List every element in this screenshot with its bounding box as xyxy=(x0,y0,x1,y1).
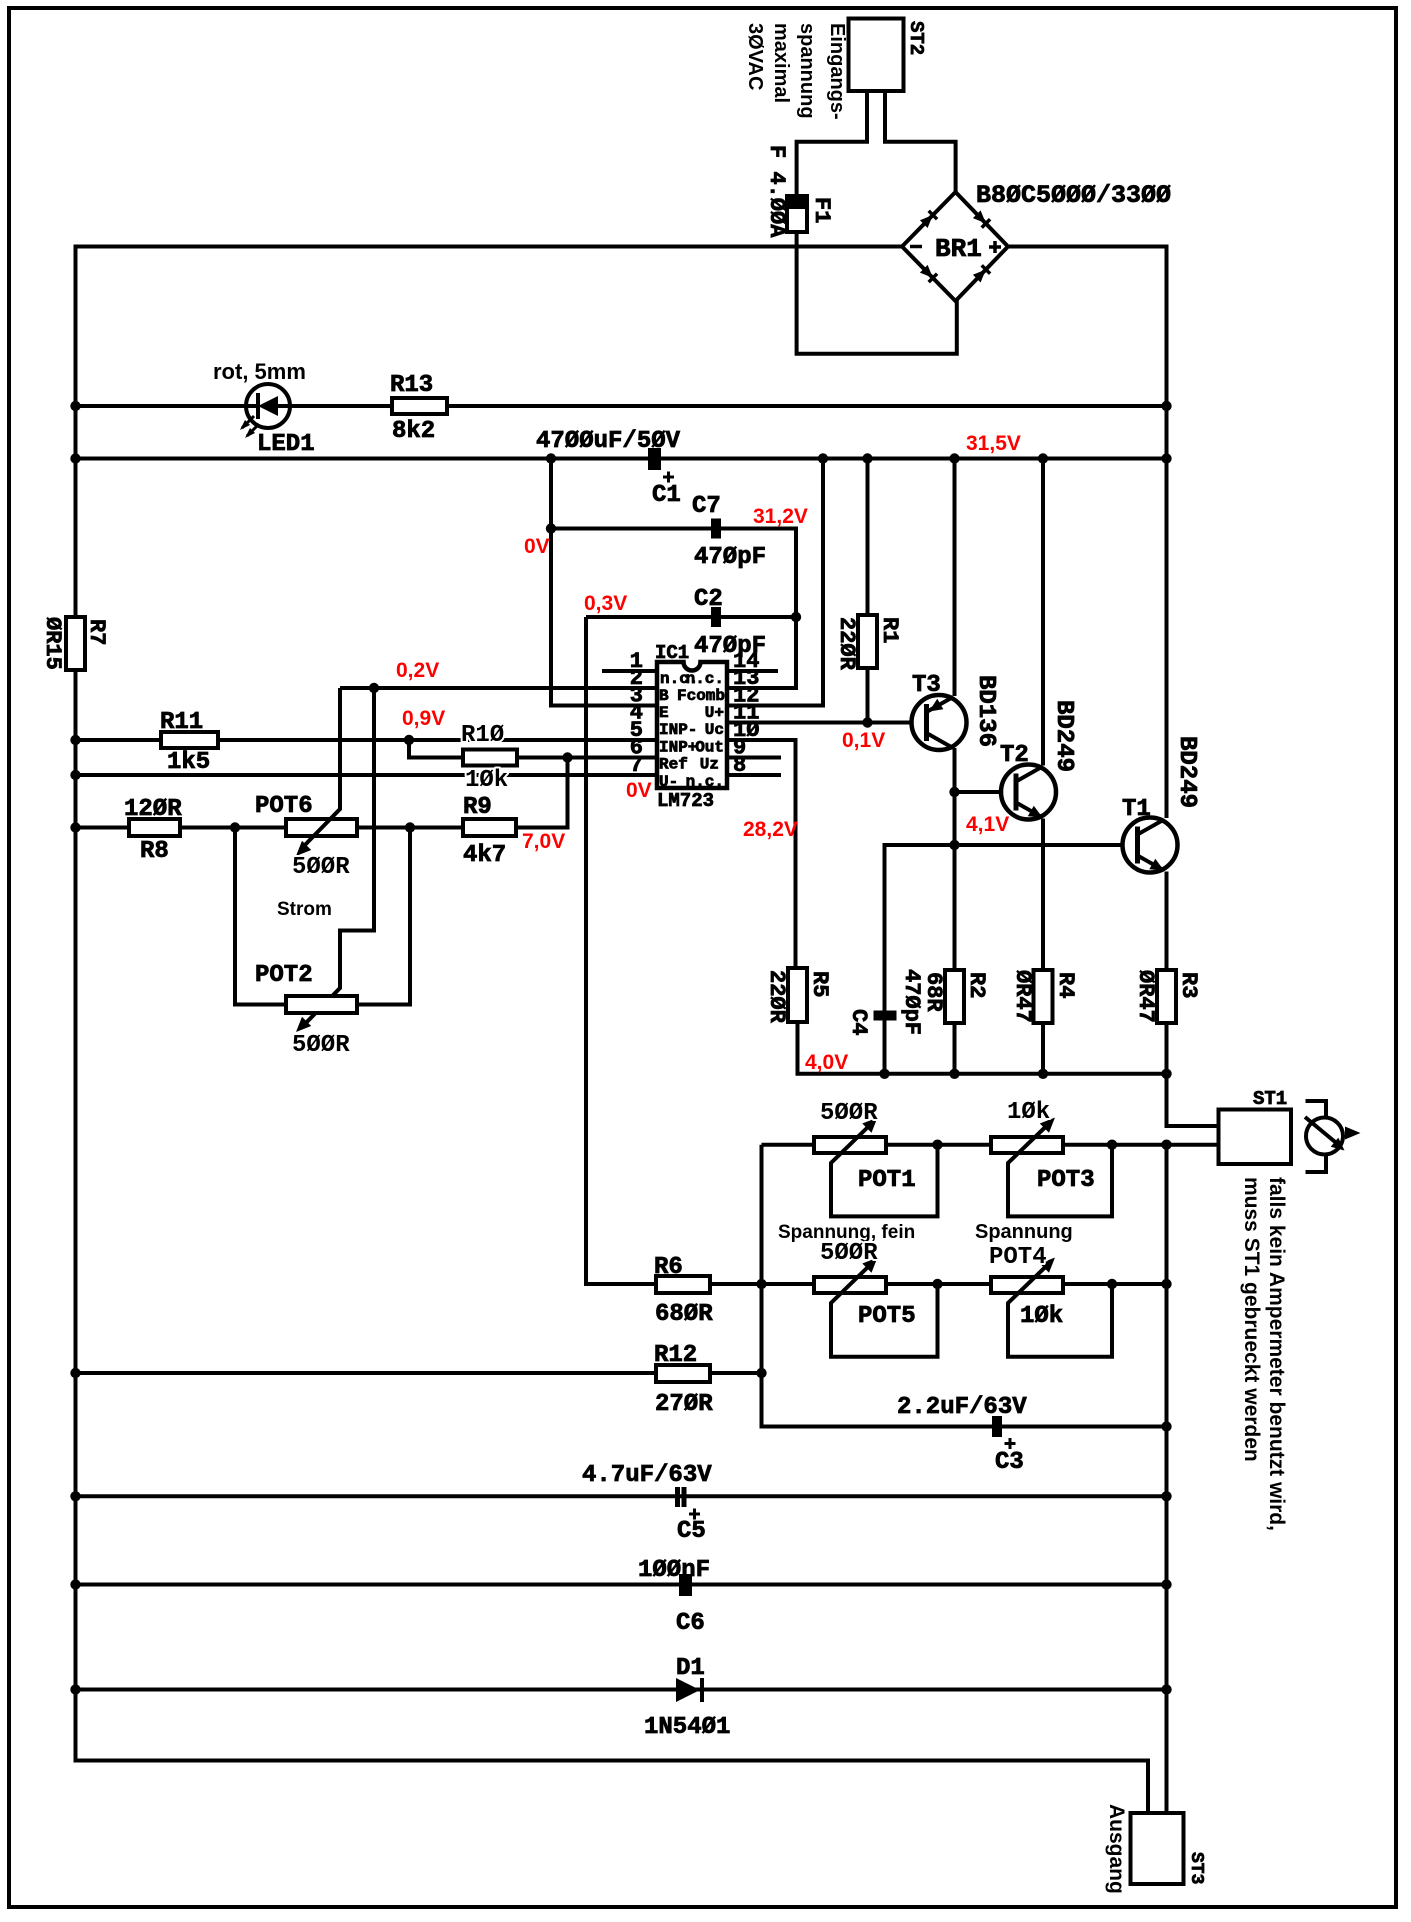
POT6 wiper arrow xyxy=(296,688,340,856)
wire main horizontal rail with C1 xyxy=(76,457,1167,461)
capacitor C1 xyxy=(648,448,661,470)
junction xyxy=(546,453,556,463)
C1 plus sign xyxy=(663,472,674,483)
svg-text:R1Ø: R1Ø xyxy=(461,722,504,749)
junction xyxy=(1161,401,1171,411)
junction xyxy=(70,1579,80,1589)
junction xyxy=(70,735,80,745)
svg-text:1Øk: 1Øk xyxy=(465,767,508,794)
wire R10 to pin6 xyxy=(517,756,657,760)
wire +31.5V from bridge plus down right rail xyxy=(1008,247,1167,819)
junction xyxy=(1161,1491,1171,1501)
wire pin11 row to T3 base xyxy=(727,721,927,725)
potentiometer POT6 body xyxy=(286,819,357,836)
svg-text:R5: R5 xyxy=(807,971,832,997)
connector ST1 xyxy=(1219,1110,1292,1165)
svg-text:Strom: Strom xyxy=(277,899,332,920)
junction xyxy=(70,1684,80,1694)
svg-text:22ØR: 22ØR xyxy=(834,617,859,671)
svg-text:falls kein Ampermeter benutzt: falls kein Ampermeter benutzt wird, xyxy=(1265,1177,1288,1531)
svg-text:ØR47: ØR47 xyxy=(1133,970,1158,1023)
junction xyxy=(1038,453,1048,463)
svg-text:spannung: spannung xyxy=(796,23,818,119)
svg-text:1Øk: 1Øk xyxy=(1007,1099,1050,1126)
BR1 diode upper-right xyxy=(973,210,990,227)
svg-text:1Øk: 1Øk xyxy=(1020,1303,1063,1330)
svg-text:1ØØnF: 1ØØnF xyxy=(638,1557,710,1584)
wire R3 bottom xyxy=(1165,1023,1169,1074)
svg-text:68ØR: 68ØR xyxy=(655,1301,713,1328)
svg-text:POT5: POT5 xyxy=(858,1303,916,1330)
capacitor C4 xyxy=(874,1011,897,1021)
svg-text:F 4.ØØA: F 4.ØØA xyxy=(764,145,789,238)
POT2 wiper arrowhead xyxy=(296,1017,311,1032)
svg-text:T3: T3 xyxy=(912,672,941,699)
svg-text:Uz: Uz xyxy=(700,756,719,774)
wire pin12 to rail xyxy=(727,459,823,706)
wire R8/POT6 row xyxy=(76,826,464,830)
svg-text:F1: F1 xyxy=(809,197,834,223)
svg-text:R8: R8 xyxy=(140,838,169,865)
resistor R6 xyxy=(656,1276,710,1293)
svg-text:POT1: POT1 xyxy=(858,1167,916,1194)
junction xyxy=(1161,1069,1171,1079)
potentiometer POT2 body xyxy=(286,996,357,1013)
wire pin2 row 0,2V xyxy=(340,686,657,690)
BR1 diode upper-left xyxy=(920,211,937,228)
svg-text:B: B xyxy=(659,687,669,705)
wire LED to R13 xyxy=(290,404,392,408)
svg-text:R4: R4 xyxy=(1053,972,1078,998)
POT2 wiper link from 0,2V node xyxy=(301,688,374,1028)
junction xyxy=(1161,453,1171,463)
bridge rectifier BR1 xyxy=(902,192,1008,301)
svg-text:T1: T1 xyxy=(1122,796,1151,823)
svg-text:1N54Ø1: 1N54Ø1 xyxy=(644,1714,730,1741)
wire R2 bottom xyxy=(953,1023,957,1074)
svg-text:0V: 0V xyxy=(524,535,550,558)
svg-text:5ØØR: 5ØØR xyxy=(820,1100,878,1127)
wire 0V drop x=551 xyxy=(551,459,657,706)
wire ST2 left lead xyxy=(797,91,867,196)
svg-text:4k7: 4k7 xyxy=(463,842,506,869)
svg-text:T2: T2 xyxy=(1000,742,1029,769)
svg-text:22ØR: 22ØR xyxy=(764,970,789,1024)
svg-text:1k5: 1k5 xyxy=(167,749,210,776)
svg-text:LM723: LM723 xyxy=(657,790,714,812)
wire R5 bottom to 4,0V bus xyxy=(798,1022,1167,1074)
BR1 diode lower-left xyxy=(920,265,937,282)
fuse F1 xyxy=(787,196,807,232)
svg-text:C2: C2 xyxy=(694,586,723,613)
wire pin8 stub xyxy=(727,773,781,777)
svg-text:C1: C1 xyxy=(652,482,681,509)
svg-text:C6: C6 xyxy=(676,1610,705,1637)
junction xyxy=(949,453,959,463)
potentiometer POT4 body xyxy=(991,1277,1063,1293)
wire pin10 to R5 xyxy=(727,740,796,968)
svg-text:0V: 0V xyxy=(626,779,652,802)
svg-text:E: E xyxy=(659,704,669,722)
wire D1 row xyxy=(76,1688,1167,1692)
svg-text:0,1V: 0,1V xyxy=(842,729,885,752)
POT3 wiper and frame xyxy=(1008,1118,1112,1217)
resistor R1 xyxy=(858,615,877,668)
capacitor C6 xyxy=(679,1574,692,1596)
ammeter symbol xyxy=(1305,1101,1361,1172)
junction xyxy=(70,453,80,463)
junction xyxy=(70,1368,80,1378)
svg-text:Ref: Ref xyxy=(659,756,688,774)
BR1 diode lower-right xyxy=(973,265,990,282)
junction xyxy=(949,1069,959,1079)
junction xyxy=(70,822,80,832)
connector ST2 xyxy=(849,19,904,92)
wire T1 emitter down to R3 xyxy=(1165,872,1169,971)
wire R4 bottom xyxy=(1041,1023,1045,1074)
svg-text:BD249: BD249 xyxy=(1173,736,1200,808)
svg-text:Fcomb: Fcomb xyxy=(677,687,725,705)
resistor R4 xyxy=(1034,970,1053,1023)
resistor R12 xyxy=(656,1365,710,1382)
wire pin1 stub xyxy=(602,669,657,673)
wire right rail POT rows xyxy=(1165,1145,1169,1427)
wire T3 collector down to R2 xyxy=(953,748,957,970)
junction xyxy=(1161,1279,1171,1289)
svg-text:R1: R1 xyxy=(877,617,902,643)
svg-text:8k2: 8k2 xyxy=(392,418,435,445)
svg-text:Spannung: Spannung xyxy=(975,1221,1073,1243)
wire pin9 stub xyxy=(727,756,781,760)
svg-text:n.c.: n.c. xyxy=(686,670,724,688)
svg-text:68R: 68R xyxy=(921,972,946,1012)
svg-text:U+: U+ xyxy=(705,704,724,722)
svg-text:5ØØR: 5ØØR xyxy=(820,1240,878,1267)
junction xyxy=(70,401,80,411)
junction xyxy=(862,717,872,727)
capacitor C5 xyxy=(675,1487,687,1507)
svg-text:0,2V: 0,2V xyxy=(396,659,439,682)
svg-text:ST2: ST2 xyxy=(905,21,927,55)
transistor Q T3 BD136 xyxy=(912,695,967,750)
svg-text:POT6: POT6 xyxy=(255,793,313,820)
svg-text:5ØØR: 5ØØR xyxy=(292,1032,350,1059)
svg-text:R7: R7 xyxy=(84,619,109,645)
svg-text:Out: Out xyxy=(695,739,724,757)
svg-text:R11: R11 xyxy=(160,709,203,736)
junction xyxy=(791,612,801,622)
resistor R3 xyxy=(1157,970,1176,1023)
wire R6/POT5 row xyxy=(710,1282,1167,1286)
C3 plus sign xyxy=(1005,1438,1016,1449)
svg-text:LED1: LED1 xyxy=(257,431,315,458)
wire left riser POT1 row to C3 row xyxy=(762,1145,1167,1427)
wire pin7 row 0V xyxy=(76,773,658,777)
transistor Q T2 BD249 xyxy=(1001,765,1056,820)
resistor R10 xyxy=(463,750,517,766)
svg-text:4.7uF/63V: 4.7uF/63V xyxy=(582,1462,712,1489)
wire C2 row xyxy=(586,615,796,619)
junction xyxy=(756,1368,766,1378)
wire pin5 row xyxy=(76,738,658,742)
junction xyxy=(862,453,872,463)
svg-text:31,2V: 31,2V xyxy=(753,505,808,528)
wire T3 emitter to rail xyxy=(953,459,957,697)
wire jog 0,9V node to R10 xyxy=(409,740,463,758)
junction xyxy=(70,1491,80,1501)
potentiometer POT3 body xyxy=(991,1137,1063,1153)
wire POT1/POT3 row xyxy=(762,1143,1167,1147)
svg-text:7,0V: 7,0V xyxy=(522,830,565,853)
wire INV vertical x=586 down to R6 row xyxy=(586,617,656,1284)
LED1 emission arrows xyxy=(240,416,259,438)
wire base row to T1 with C4 drop xyxy=(885,845,1138,1074)
wire pin14 stub xyxy=(727,669,778,673)
svg-text:4,0V: 4,0V xyxy=(805,1051,848,1074)
svg-text:ST3: ST3 xyxy=(1186,1852,1206,1884)
resistor R9 xyxy=(463,819,516,836)
resistor R2 xyxy=(945,970,964,1023)
svg-text:B8ØC5ØØØ/33ØØ: B8ØC5ØØØ/33ØØ xyxy=(976,181,1171,210)
junction xyxy=(1161,1579,1171,1589)
svg-text:Uc: Uc xyxy=(705,721,724,739)
junction xyxy=(818,453,828,463)
junction xyxy=(230,822,240,832)
junction xyxy=(404,735,414,745)
svg-text:3ØVAC: 3ØVAC xyxy=(744,23,766,90)
svg-text:D1: D1 xyxy=(676,1655,705,1682)
capacitor C2 xyxy=(711,607,721,627)
svg-text:R3: R3 xyxy=(1176,972,1201,998)
junction xyxy=(70,770,80,780)
svg-text:C5: C5 xyxy=(677,1518,706,1545)
C5 plus sign xyxy=(689,1509,700,1520)
wire R13 to +rail xyxy=(447,404,1167,408)
svg-text:4,1V: 4,1V xyxy=(966,813,1009,836)
wire LED/R13 row left xyxy=(76,404,247,408)
wire ST2 right lead xyxy=(885,91,956,193)
LED LED1 xyxy=(246,384,290,428)
POT4 wiper and frame xyxy=(1008,1258,1112,1357)
wire POT2 left leg xyxy=(235,828,286,1005)
svg-text:ØR15: ØR15 xyxy=(40,617,65,670)
svg-text:C4: C4 xyxy=(846,1009,871,1035)
svg-text:ST1: ST1 xyxy=(1253,1088,1287,1110)
svg-text:U-: U- xyxy=(659,773,678,791)
svg-text:12ØR: 12ØR xyxy=(124,796,182,823)
svg-text:R2: R2 xyxy=(964,972,989,998)
resistor R8 xyxy=(129,819,180,836)
svg-text:Eingangs-: Eingangs- xyxy=(826,23,848,120)
BR1 plus sign xyxy=(989,241,1001,253)
wire ST1 lower lead xyxy=(1167,1143,1219,1147)
svg-text:0,3V: 0,3V xyxy=(584,592,627,615)
svg-text:R9: R9 xyxy=(463,794,492,821)
wire R12 right xyxy=(710,1371,762,1375)
junction xyxy=(756,1279,766,1289)
wire 0V rail below R7 xyxy=(76,670,1149,1813)
POT5 wiper and frame xyxy=(831,1258,938,1357)
junction xyxy=(1107,1140,1117,1150)
wire POT2 right leg xyxy=(357,828,410,1005)
resistor R7 on 0V rail xyxy=(66,617,85,670)
wire T2 emitter down to R4 xyxy=(1041,819,1045,971)
wire R12 row xyxy=(76,1371,657,1375)
BR1 minus sign xyxy=(910,245,922,249)
junction xyxy=(949,787,959,797)
svg-text:INP-: INP- xyxy=(659,721,697,739)
op-amp U1 IC1 LM723 body xyxy=(657,662,727,788)
junction xyxy=(1161,1684,1171,1694)
svg-text:ØR47: ØR47 xyxy=(1010,970,1035,1023)
junction xyxy=(369,683,379,693)
svg-text:C3: C3 xyxy=(995,1449,1024,1476)
resistor R13 xyxy=(392,398,447,414)
wire C7 row xyxy=(551,529,796,689)
svg-text:2.2uF/63V: 2.2uF/63V xyxy=(897,1394,1027,1421)
svg-text:R6: R6 xyxy=(654,1254,683,1281)
wire T3 collector to T2 base xyxy=(955,790,1017,794)
wire rail to ST1 upper lead xyxy=(1167,1074,1219,1126)
transistor Q T1 BD249 xyxy=(1123,818,1178,873)
connector ST3 xyxy=(1131,1813,1184,1884)
svg-text:28,2V: 28,2V xyxy=(743,818,798,841)
junction xyxy=(949,840,959,850)
wire 0V bus left from bridge minus xyxy=(76,247,903,618)
capacitor C7 xyxy=(711,519,721,539)
svg-text:POT4: POT4 xyxy=(989,1244,1047,1271)
svg-text:n.c.: n.c. xyxy=(686,773,724,791)
svg-text:0,9V: 0,9V xyxy=(402,707,445,730)
svg-text:47ØpF: 47ØpF xyxy=(899,969,924,1035)
svg-text:27ØR: 27ØR xyxy=(655,1391,713,1418)
diode D1 xyxy=(676,1678,702,1702)
svg-text:31,5V: 31,5V xyxy=(966,432,1021,455)
POT1 wiper and frame xyxy=(831,1118,938,1217)
wire F1 bottom to bridge bottom xyxy=(797,232,957,354)
wire R9 riser to pin6 junction xyxy=(516,758,568,828)
wire R1 bottom xyxy=(866,668,870,723)
wire C5 row xyxy=(76,1494,1167,1498)
svg-text:R12: R12 xyxy=(654,1342,697,1369)
svg-text:BR1: BR1 xyxy=(935,234,982,264)
svg-text:IC1: IC1 xyxy=(655,642,689,664)
junction xyxy=(546,523,556,533)
svg-text:INP+: INP+ xyxy=(659,739,697,757)
potentiometer POT5 body xyxy=(814,1277,886,1293)
wire R1 top xyxy=(866,459,870,616)
resistor R5 xyxy=(788,968,807,1022)
svg-text:BD136: BD136 xyxy=(972,675,999,747)
potentiometer POT1 body xyxy=(814,1137,886,1153)
junction xyxy=(1107,1279,1117,1289)
capacitor C3 xyxy=(992,1416,1002,1437)
svg-text:R13: R13 xyxy=(390,372,433,399)
junction xyxy=(562,752,572,762)
wire C6 row xyxy=(76,1583,1167,1587)
svg-text:5ØØR: 5ØØR xyxy=(292,854,350,881)
svg-text:47ØpF: 47ØpF xyxy=(694,544,766,571)
junction xyxy=(932,1140,942,1150)
junction xyxy=(405,822,415,832)
junction xyxy=(932,1279,942,1289)
svg-text:POT2: POT2 xyxy=(255,962,313,989)
junction xyxy=(1161,1421,1171,1431)
svg-text:Ausgang: Ausgang xyxy=(1105,1804,1128,1894)
wire rail down to C5 row xyxy=(1165,1427,1169,1814)
junction xyxy=(879,1069,889,1079)
junction xyxy=(1161,1140,1171,1150)
svg-text:BD249: BD249 xyxy=(1050,700,1077,772)
junction xyxy=(1038,1069,1048,1079)
wire T2 collector to rail xyxy=(1041,459,1045,766)
resistor R11 xyxy=(161,732,218,748)
svg-text:C7: C7 xyxy=(692,493,721,520)
svg-text:maximal: maximal xyxy=(770,23,792,103)
svg-text:POT3: POT3 xyxy=(1037,1167,1095,1194)
svg-text:rot, 5mm: rot, 5mm xyxy=(213,359,306,384)
svg-text:muss ST1 gebrueckt werden: muss ST1 gebrueckt werden xyxy=(1240,1177,1263,1462)
